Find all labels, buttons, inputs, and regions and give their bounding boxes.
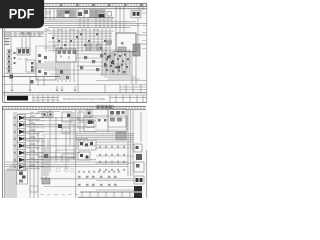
svg-text:PDF: PDF <box>9 7 35 23</box>
svg-text:SCHEMATIC DIAGRAM PAGE-1 MOD: SCHEMATIC DIAGRAM PAGE-1 MODEL <box>63 98 106 101</box>
